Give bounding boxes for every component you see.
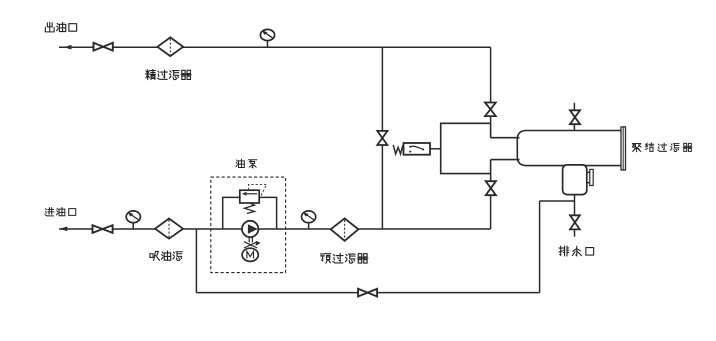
valve V4 (vessel top vent)	[573, 103, 575, 131]
relief valve RV1	[240, 190, 259, 203]
motor M1	[242, 248, 258, 261]
arrow on inlet line	[61, 227, 67, 231]
arrow on outlet line	[66, 45, 72, 49]
label: 预过滤器	[320, 254, 330, 263]
wire: main lower line (inlet)	[59, 228, 491, 230]
valve V6 (inlet shut-off)	[93, 225, 113, 233]
pump P1 (circle + flow triangle)	[242, 221, 258, 237]
neck between head and vessel	[491, 138, 520, 160]
label: 吸油滤	[150, 251, 160, 260]
valve V7 (bottom loop)	[358, 289, 377, 297]
label: 出油口	[45, 22, 54, 32]
wire: top outlet line	[59, 46, 491, 48]
valve V3 (filter inlet top)	[485, 103, 496, 117]
valve V1 (outlet shut-off)	[94, 43, 113, 51]
level switch LS (W)	[404, 143, 431, 155]
label: 精过滤器	[145, 70, 155, 80]
pot side nozzle + sight flange	[587, 172, 590, 182]
filter F3 diamond (pre-filter)	[331, 218, 359, 240]
gauge G1 (pressure gauge, top line)	[267, 40, 269, 47]
gauge G3 (pump outlet)	[308, 223, 310, 229]
valve V8 (drain)	[570, 215, 580, 229]
coalescing filter head box	[441, 123, 491, 173]
label: 进油口	[45, 208, 54, 216]
wire: recirculation / drain bottom loop	[196, 201, 574, 293]
wire: switch to head	[430, 148, 441, 150]
labels (drawn glyphs)	[45, 22, 692, 263]
wire: drain line	[574, 195, 576, 237]
label: 聚结过滤器	[632, 143, 641, 151]
valve V5 (head bottom)	[490, 174, 492, 229]
filter F1 diamond (fine filter)	[157, 37, 183, 56]
vessel right flange	[621, 127, 626, 170]
filter F2 diamond (suction strainer)	[155, 219, 183, 239]
valve V2 (branch A)	[377, 131, 387, 145]
gauge G2 (inlet vacuum gauge)	[132, 223, 134, 229]
dashed enclosure box (oil pump unit)	[211, 177, 286, 273]
label: 油泵	[236, 159, 244, 167]
wire: vertical branch B (x=490.6)	[490, 47, 492, 123]
pump bypass with relief valve	[223, 197, 277, 229]
wire: vertical branch A (x=382)	[381, 47, 383, 229]
label: 排水口	[559, 246, 569, 256]
coalescing filter vessel (horizontal cylinder)	[517, 131, 621, 166]
coupling / shaft	[249, 237, 252, 242]
label: W (level switch)	[393, 145, 403, 154]
water sump pot under vessel	[563, 165, 587, 195]
